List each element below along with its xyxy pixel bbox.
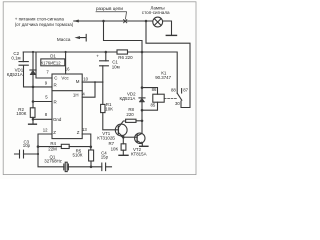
transistor Q1 VT1 — [115, 124, 127, 136]
svg-text:R6 220: R6 220 — [118, 55, 133, 60]
svg-text:R: R — [54, 83, 57, 88]
resistor R7 — [121, 144, 126, 150]
svg-text:10м: 10м — [112, 64, 120, 69]
svg-text:разрыв цепи: разрыв цепи — [96, 6, 123, 11]
diode VD1 — [32, 52, 34, 87]
svg-text:КТ3102Б: КТ3102Б — [97, 136, 115, 141]
wire: R4 rail — [38, 146, 91, 148]
svg-text:Gnd: Gnd — [53, 117, 62, 122]
svg-text:15p: 15p — [101, 155, 109, 160]
svg-text:88: 88 — [171, 88, 176, 93]
IC label box — [41, 59, 65, 66]
node: C2/VD1 bottom junction — [32, 86, 35, 89]
pointer line from label to break — [96, 12, 127, 19]
wire: lamp to chassis — [163, 21, 172, 35]
svg-text:90.3747: 90.3747 — [155, 75, 171, 80]
wire: VT1 emitter down and to VT2 base — [123, 136, 137, 138]
svg-text:+: + — [96, 53, 99, 58]
wire: pin 5 line — [33, 101, 52, 103]
svg-text:M: M — [76, 79, 80, 84]
resistor R5 — [89, 150, 94, 161]
dashed actuator line — [164, 98, 176, 100]
relay K1 coil — [153, 94, 164, 102]
svg-text:30: 30 — [175, 101, 180, 106]
ground under R7 — [119, 154, 128, 156]
capacitor C4 — [91, 166, 112, 168]
wire: pin 10 line — [82, 81, 103, 83]
wire: C1/R1 column — [102, 82, 104, 104]
wire: pin 7 from rail — [36, 52, 52, 78]
wire: pin 4 line — [82, 82, 95, 97]
wire: R8/VT2 collector column — [137, 110, 142, 136]
Massa terminal arrow — [80, 34, 87, 41]
svg-text:12: 12 — [43, 127, 48, 132]
svg-text:0,1м: 0,1м — [11, 55, 20, 60]
node rail-C2 corner — [22, 52, 24, 62]
svg-text:510К: 510К — [73, 153, 83, 158]
svg-text:13: 13 — [82, 127, 87, 132]
resistor R2 — [30, 108, 35, 118]
svg-text:+ питания стоп-сигнала: + питания стоп-сигнала — [15, 17, 65, 22]
wire: pin 9 line — [33, 86, 52, 88]
svg-text:220: 220 — [126, 112, 134, 117]
ground under VT2 emitter — [140, 145, 148, 147]
svg-text:КД521А: КД521А — [120, 96, 136, 101]
capacitor C3 — [15, 153, 39, 155]
svg-text:10: 10 — [83, 76, 88, 81]
wire: pin12 column down to bottom rail — [38, 147, 64, 167]
svg-text:10p: 10p — [23, 143, 31, 148]
lamp HL — [153, 17, 163, 27]
resistor R4 — [61, 144, 69, 148]
break mark x on wire — [124, 20, 127, 23]
transistor Q2 VT2 — [135, 133, 145, 143]
wire: arrow to stop-signal text — [74, 20, 79, 22]
svg-text:Z: Z — [77, 130, 80, 135]
diode VD2 — [141, 88, 143, 111]
svg-text:R7: R7 — [109, 141, 115, 146]
svg-text:К176ИЕ12: К176ИЕ12 — [41, 60, 62, 65]
border frame — [3, 2, 196, 175]
svg-text:D1: D1 — [50, 54, 56, 59]
svg-text:Z: Z — [53, 130, 56, 135]
svg-text:КД521А: КД521А — [7, 72, 23, 77]
svg-text:Vcc: Vcc — [61, 76, 69, 81]
ground chassis for lamp — [166, 34, 176, 36]
wire: R1 to VT1 base — [103, 113, 119, 130]
svg-text:КТ815А: КТ815А — [131, 151, 147, 156]
wire: main stop-signal line — [77, 20, 153, 22]
crystal Q1 — [64, 164, 69, 170]
capacitor C1 — [103, 52, 106, 82]
node rail dots — [32, 51, 34, 53]
contact 87 stub — [181, 89, 183, 93]
svg-text:86: 86 — [152, 87, 157, 92]
capacitor C2 — [19, 62, 33, 87]
resistor R1 — [101, 104, 105, 112]
svg-text:10К: 10К — [111, 146, 119, 151]
wire: pin 13 line — [82, 134, 91, 147]
wire: pin 16 Vcc from rail — [65, 52, 67, 74]
relay contact blade — [177, 93, 182, 100]
wire: node B to contact 30 — [146, 21, 190, 108]
wire: relay column from rail — [141, 52, 143, 88]
svg-text:22М: 22М — [48, 146, 57, 151]
svg-text:стоп-сигнала: стоп-сигнала — [142, 10, 170, 15]
wire: pin 12 line — [38, 134, 52, 147]
svg-text:85: 85 — [151, 102, 156, 107]
resistor R6 — [117, 50, 128, 54]
svg-text:R: R — [54, 99, 57, 104]
node B junction under lamp — [145, 20, 148, 23]
svg-text:1H: 1H — [73, 93, 79, 98]
svg-text:Масса: Масса — [57, 37, 71, 42]
svg-text:87: 87 — [183, 88, 188, 93]
wire: drop from node A — [104, 21, 143, 52]
svg-text:16: 16 — [65, 67, 70, 72]
wire: column to R2 — [32, 86, 34, 108]
op-amp U1 : IC D1 box — [52, 74, 82, 139]
wire: pin 8 line — [33, 118, 52, 120]
svg-text:(от датчика педали тормоза): (от датчика педали тормоза) — [15, 22, 74, 27]
wire: supply rail y=52 — [23, 52, 177, 93]
node A junction on main line — [102, 20, 105, 23]
resistor R8 — [126, 119, 136, 122]
svg-text:10К: 10К — [105, 107, 113, 112]
arrow to +stop text — [74, 20, 79, 22]
ground under R2 — [32, 117, 34, 123]
svg-text:100К: 100К — [16, 111, 26, 116]
svg-text:32768Hz: 32768Hz — [44, 159, 62, 164]
